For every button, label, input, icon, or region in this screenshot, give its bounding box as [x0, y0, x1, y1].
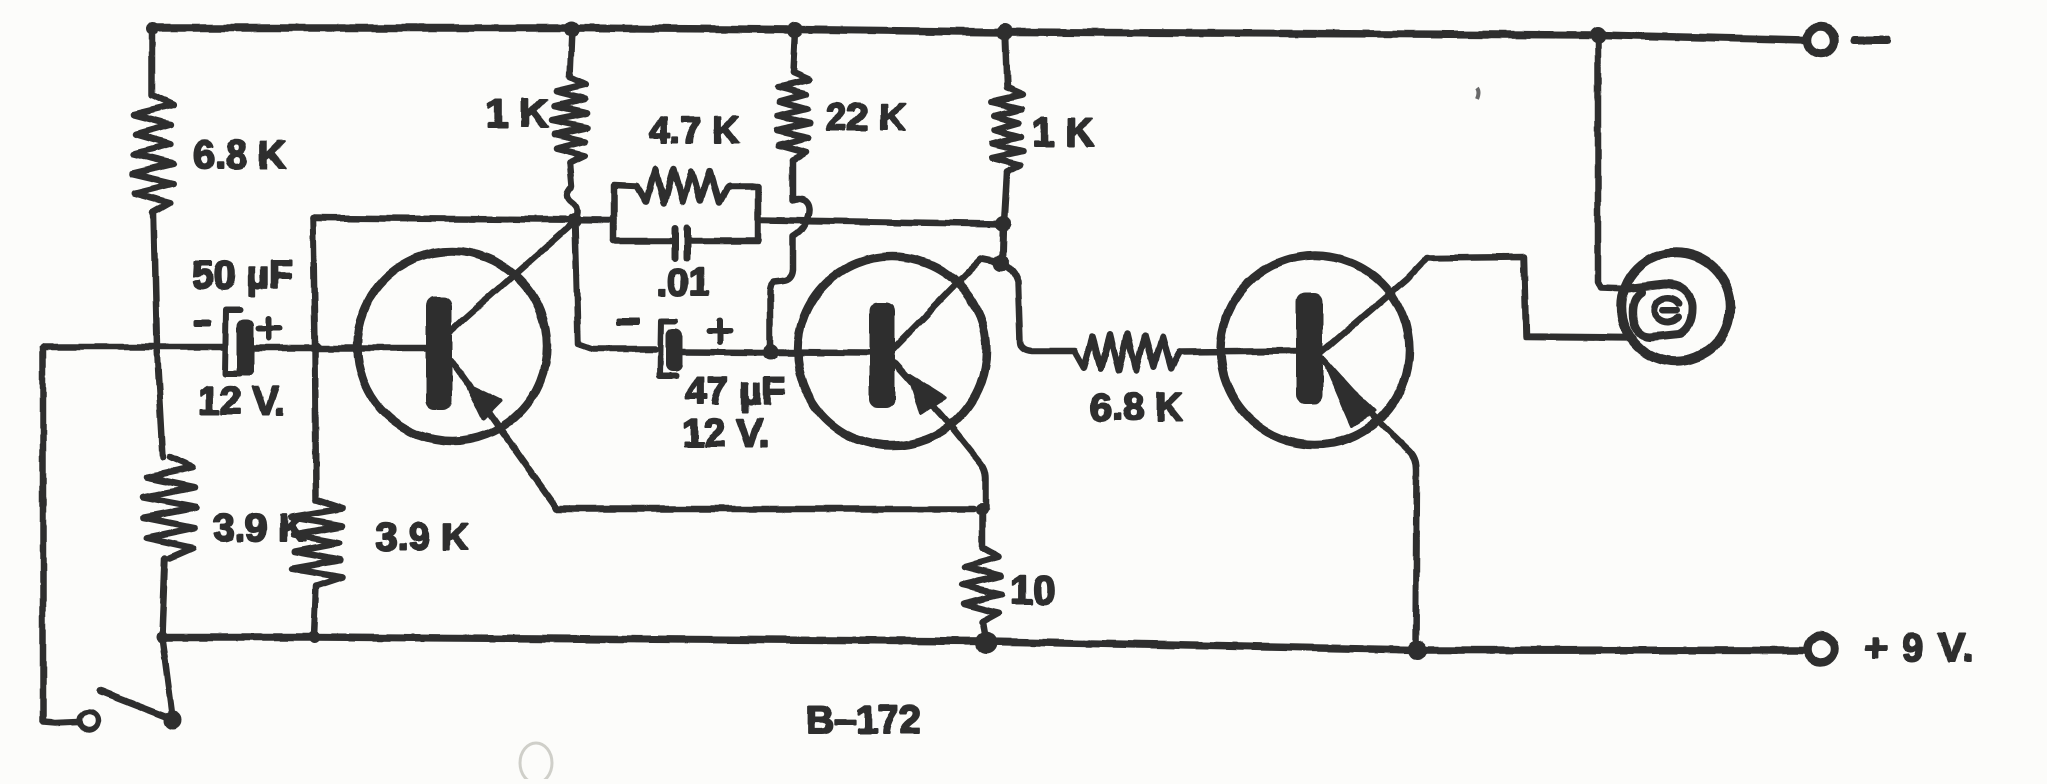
- wire: Q2 emitter lead: [894, 362, 986, 509]
- wire: feedback node vertical (main line to 3.9K R3): [313, 218, 316, 500]
- wire: Q1 emitter lead: [451, 360, 974, 509]
- wire: C2 to Q2 base: [683, 352, 868, 353]
- wire: main line junction down to Q2 collector node: [1002, 224, 1003, 262]
- capacitor C1 50uF right plate (solid): [237, 319, 254, 376]
- resistor R9 6.8K (interstage): [1075, 333, 1180, 371]
- node: emitter junction: [976, 504, 988, 516]
- svg-text:3.9 K: 3.9 K: [376, 516, 469, 559]
- resistor R3 3.9K (Q1 base return): [291, 500, 343, 586]
- node: Q1 collector junction: [567, 213, 581, 227]
- node: main line / R7: [995, 216, 1011, 232]
- wire: far-left input down-leg to switch: [43, 347, 79, 723]
- node: top rail / R6: [787, 22, 803, 38]
- svg-text:6.8 K: 6.8 K: [193, 134, 286, 177]
- wire: 22K lead with hop over main line: [770, 160, 809, 348]
- transistor Q1 base bar: [426, 297, 452, 410]
- svg-text:50 µF: 50 µF: [192, 254, 293, 297]
- wire: main feedback line right segment: [760, 220, 1003, 224]
- capacitor C1 50uF left plate (bracket): [225, 310, 240, 374]
- lamp inner loop: [1624, 284, 1692, 337]
- wire: Q2 collector node to 6.8K R9: [1001, 263, 1075, 351]
- node: top rail / lamp feed: [1590, 27, 1606, 43]
- label C1 plus sign: [259, 318, 279, 338]
- negative supply terminal circle: [1808, 27, 1835, 54]
- node: bottom rail / R8: [975, 632, 997, 654]
- node: top rail / R4: [564, 21, 580, 37]
- wire: left vertical branch (top rail to bottom rail): [149, 28, 156, 95]
- label C1 minus sign: [194, 320, 211, 327]
- lamp/earpiece outer circle: [1622, 253, 1731, 362]
- svg-text:10: 10: [1010, 567, 1056, 613]
- wire: R7 to main line junction: [1004, 172, 1007, 223]
- resistor R7 1K (Q2 collector load): [991, 88, 1023, 172]
- wire: R3 to bottom rail: [314, 586, 316, 637]
- svg-text:1 K: 1 K: [1032, 111, 1094, 155]
- scan smudge (decorative): [520, 743, 552, 783]
- svg-text:12 V.: 12 V.: [682, 412, 769, 455]
- wire: R9 to Q3 base: [1180, 351, 1296, 352]
- node: top rail / left branch: [146, 23, 158, 35]
- switch S1 lever: [100, 691, 172, 719]
- wire: input line from switch branch to C1: [43, 344, 225, 351]
- wire: main feedback line left segment: [313, 218, 614, 220]
- wire: switch pivot to bottom rail: [162, 637, 172, 714]
- feedback box left side: [614, 185, 637, 241]
- Q1 emitter arrow: [466, 384, 501, 419]
- svg-text:B–172: B–172: [806, 699, 921, 742]
- svg-text:3.9 K: 3.9 K: [213, 507, 306, 550]
- svg-text:4.7 K: 4.7 K: [649, 110, 740, 152]
- node: Q2 base / 22K: [762, 344, 778, 360]
- node: input line / left branch crossing: [311, 342, 321, 352]
- resistor R4 1K (Q1 collector load): [552, 77, 588, 163]
- wire: R8 to bottom rail: [983, 622, 986, 640]
- label C2 minus sign: [616, 318, 640, 325]
- node: bottom rail / left branch: [156, 631, 168, 643]
- capacitor C3 .01 plates: [675, 228, 687, 258]
- svg-text:22 K: 22 K: [826, 97, 907, 139]
- resistor R2 3.9K (left lower bias): [144, 457, 198, 558]
- Q3 emitter arrow: [1326, 366, 1375, 426]
- wire: Q1/Q2 emitter junction to 10 ohm: [979, 509, 986, 548]
- svg-text:.01: .01: [657, 262, 710, 304]
- svg-text:12 V.: 12 V.: [198, 380, 285, 423]
- wire: 22K top rail tap: [793, 30, 795, 72]
- wire: 1K R4 top rail tap: [570, 29, 572, 77]
- transistor Q1 circle: [357, 251, 547, 441]
- transistor Q2 circle: [798, 257, 987, 446]
- wire: Q1 collector to main line: [450, 221, 575, 332]
- wire: C1 to Q1 base: [254, 345, 427, 352]
- transistor Q2 base bar: [869, 302, 895, 408]
- capacitor C2 47uF right plate (solid): [666, 329, 683, 372]
- capacitor C2 47uF left plate (bracket): [660, 321, 676, 376]
- switch S1 open terminal: [80, 712, 98, 730]
- wire: 1K R7 top rail tap: [1005, 32, 1007, 88]
- resistor R6 22K (Q2 base bias): [776, 72, 810, 160]
- wire: Q3 collector to lamp: [1322, 257, 1634, 352]
- wire: Q2 collector diagonal: [893, 259, 1001, 349]
- resistor R5 4.7K (feedback, top of box): [637, 169, 728, 205]
- svg-text:47 µF: 47 µF: [685, 370, 786, 413]
- wire: top rail down-feed to lamp: [1598, 35, 1630, 289]
- feedback box right side: [691, 187, 758, 241]
- transistor Q3 circle: [1221, 256, 1410, 445]
- lamp inner coil: [1654, 298, 1679, 323]
- resistor R1 6.8K (left bias): [132, 95, 174, 213]
- Q2 emitter arrow: [909, 375, 945, 414]
- wire: Q1 collector node down to C2: [575, 221, 655, 349]
- node: bottom rail / R3: [308, 631, 320, 643]
- svg-text:6.8 K: 6.8 K: [1090, 386, 1183, 429]
- node: Q2 collector junction: [993, 255, 1009, 271]
- wire: R4 tail to main line: [567, 163, 577, 219]
- scan speck (decorative): [1477, 88, 1479, 99]
- wire: top negative supply rail: [152, 28, 1806, 40]
- feedback box bottom-left edge: [614, 238, 671, 245]
- svg-text:+ 9 V.: + 9 V.: [1864, 626, 1975, 670]
- svg-text:1 K: 1 K: [486, 92, 548, 136]
- node: bottom rail / Q3 emitter: [1407, 640, 1427, 660]
- label minus (negative terminal): [1851, 36, 1890, 44]
- wire: bottom +9V supply rail: [162, 637, 1805, 651]
- switch S1 pivot dot: [164, 711, 182, 729]
- wire: Q3 emitter lead: [1323, 360, 1417, 648]
- transistor Q3 base bar: [1296, 293, 1323, 404]
- resistor R8 10 ohm (emitter): [962, 548, 1002, 622]
- label C2 plus sign: [709, 320, 731, 342]
- +9V supply terminal circle: [1808, 636, 1835, 663]
- node: top rail / R7: [997, 24, 1013, 40]
